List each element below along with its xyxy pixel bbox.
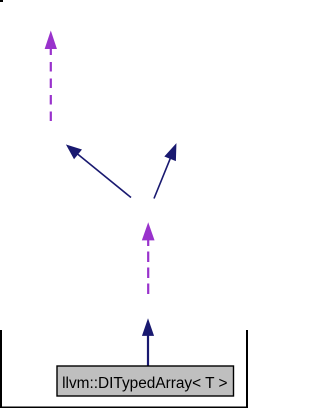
template arrow D: arrowhead (142, 224, 154, 241)
node box llvm::DITypedArray< T > (57, 366, 234, 396)
inheritance arrow B (up-left): shaft (78, 154, 131, 197)
template arrow U1 (dashed, top-left): shaft (50, 49, 52, 122)
inheritance arrow C: arrowhead (165, 144, 176, 160)
inheritance arrow E: arrowhead (143, 320, 154, 336)
template arrow U1: arrowhead (45, 32, 56, 49)
clipped box border (bottom edge) (0, 407, 248, 408)
inheritance arrow B: arrowhead (67, 145, 82, 158)
inheritance arrow E (bottom, vertical): shaft (147, 336, 149, 367)
template arrow D (dashed, middle): shaft (147, 240, 149, 294)
clipped neighbor box border (right edge) (246, 330, 248, 408)
clipped neighbor box border (left edge) (0, 330, 2, 408)
inheritance arrow C (up-right): shaft (154, 158, 170, 198)
svg-text:llvm::DITypedArray< T >: llvm::DITypedArray< T > (62, 375, 227, 392)
clipped box corner fragment (top-left) (0, 0, 3, 2)
